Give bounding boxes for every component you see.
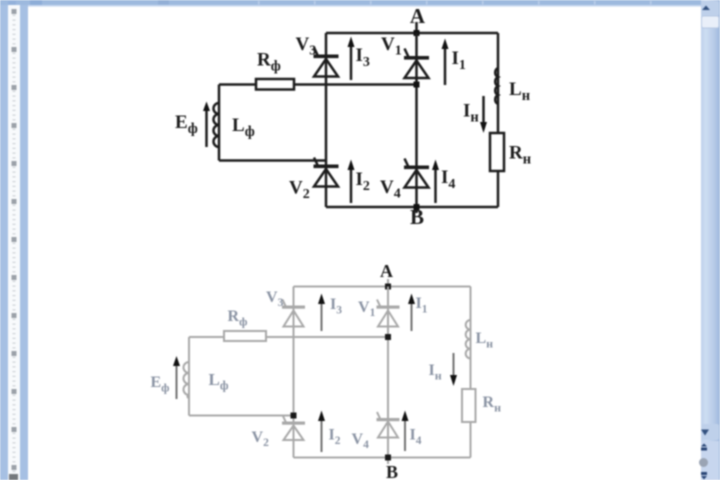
wire: stub to node B (copy) <box>387 458 389 465</box>
junction at B rail (copy) <box>385 455 391 461</box>
current arrow In <box>480 96 487 133</box>
thyristor V4 <box>404 159 429 188</box>
wire: left bridge leg <box>325 33 328 207</box>
thyristor V3 (copy) <box>282 300 305 327</box>
EMF arrow Ef <box>203 102 210 148</box>
thyristor V1 (copy) <box>377 300 400 327</box>
junction at A rail (copy) <box>385 284 391 290</box>
ruler bottom mark <box>9 474 18 480</box>
junction at A rail <box>414 30 420 36</box>
current arrow I1 <box>442 39 449 86</box>
current arrow I2 (copy) <box>318 411 325 453</box>
ruler tick marks <box>13 10 16 472</box>
resistor Rf <box>256 79 294 90</box>
wire: source left vertical (copy) <box>188 337 190 416</box>
wire: bottom rail (copy) <box>294 457 471 459</box>
svg-text:A: A <box>410 4 426 28</box>
EMF arrow Ef (copy) <box>173 356 180 399</box>
wire: bottom rail <box>326 206 498 209</box>
wire: right load branch <box>497 33 500 207</box>
scrollbar down button <box>701 424 719 440</box>
current arrow I3 (copy) <box>318 294 325 332</box>
thyristor V1 <box>404 49 429 79</box>
svg-text:B: B <box>386 462 398 480</box>
ruler number labels <box>12 9 17 470</box>
vertical ruler (left) <box>0 5 28 480</box>
browse previous button <box>701 441 719 454</box>
wire: stub node A to top rail (copy) <box>387 279 389 287</box>
junction at center leg (copy) <box>385 334 391 340</box>
wire: top rail (copy) <box>294 286 471 288</box>
wire: left bridge leg (copy) <box>293 287 295 458</box>
current arrow I4 (copy) <box>402 411 409 452</box>
inductor Lf (winding on source branch) <box>214 103 219 147</box>
current arrow I1 (copy) <box>408 294 415 332</box>
svg-text:B: B <box>410 205 424 229</box>
thyristor V4 (copy) <box>377 412 400 438</box>
current arrow I4 <box>432 160 439 204</box>
junction at left leg (copy) <box>291 413 297 419</box>
inductor Ln (copy) <box>466 320 471 358</box>
thyristor V2 <box>314 158 339 187</box>
resistor Rn (copy) <box>462 389 476 422</box>
current arrow I3 <box>348 37 355 81</box>
thyristor V3 <box>314 48 339 77</box>
wire: source top wire (copy) <box>189 336 388 338</box>
wire: source bottom wire to left leg <box>219 159 326 162</box>
wire: stub from node A to top rail <box>415 22 418 33</box>
thyristor V2 (copy) <box>282 415 305 440</box>
wire: top rail <box>326 32 498 35</box>
browse next button <box>701 469 719 480</box>
wire: center bridge leg <box>415 33 418 207</box>
scrollbar thumb <box>702 16 720 28</box>
wire: stub from bottom rail to node B <box>415 207 418 213</box>
browse select button <box>701 454 719 469</box>
junction at B rail <box>414 204 420 210</box>
svg-text:A: A <box>380 261 393 281</box>
current arrow In (copy) <box>450 353 457 386</box>
resistor Rf (copy) <box>224 331 266 341</box>
junction at center leg <box>414 82 420 88</box>
wire: center bridge leg (copy) <box>387 287 389 458</box>
resistor Rn (load) <box>490 133 504 171</box>
inductor Ln (load) <box>495 68 498 104</box>
inductor Lf (copy) <box>184 362 190 398</box>
scrollbar up button <box>701 1 719 16</box>
wire: source bottom wire (copy) <box>189 415 294 417</box>
vertical scrollbar (right) <box>699 0 720 480</box>
current arrow I2 <box>348 160 355 204</box>
wire: source top wire to center leg <box>219 83 417 86</box>
wire: right load branch (copy) <box>470 287 472 458</box>
window top blue bar <box>0 0 720 7</box>
wire: source left vertical <box>218 85 221 161</box>
